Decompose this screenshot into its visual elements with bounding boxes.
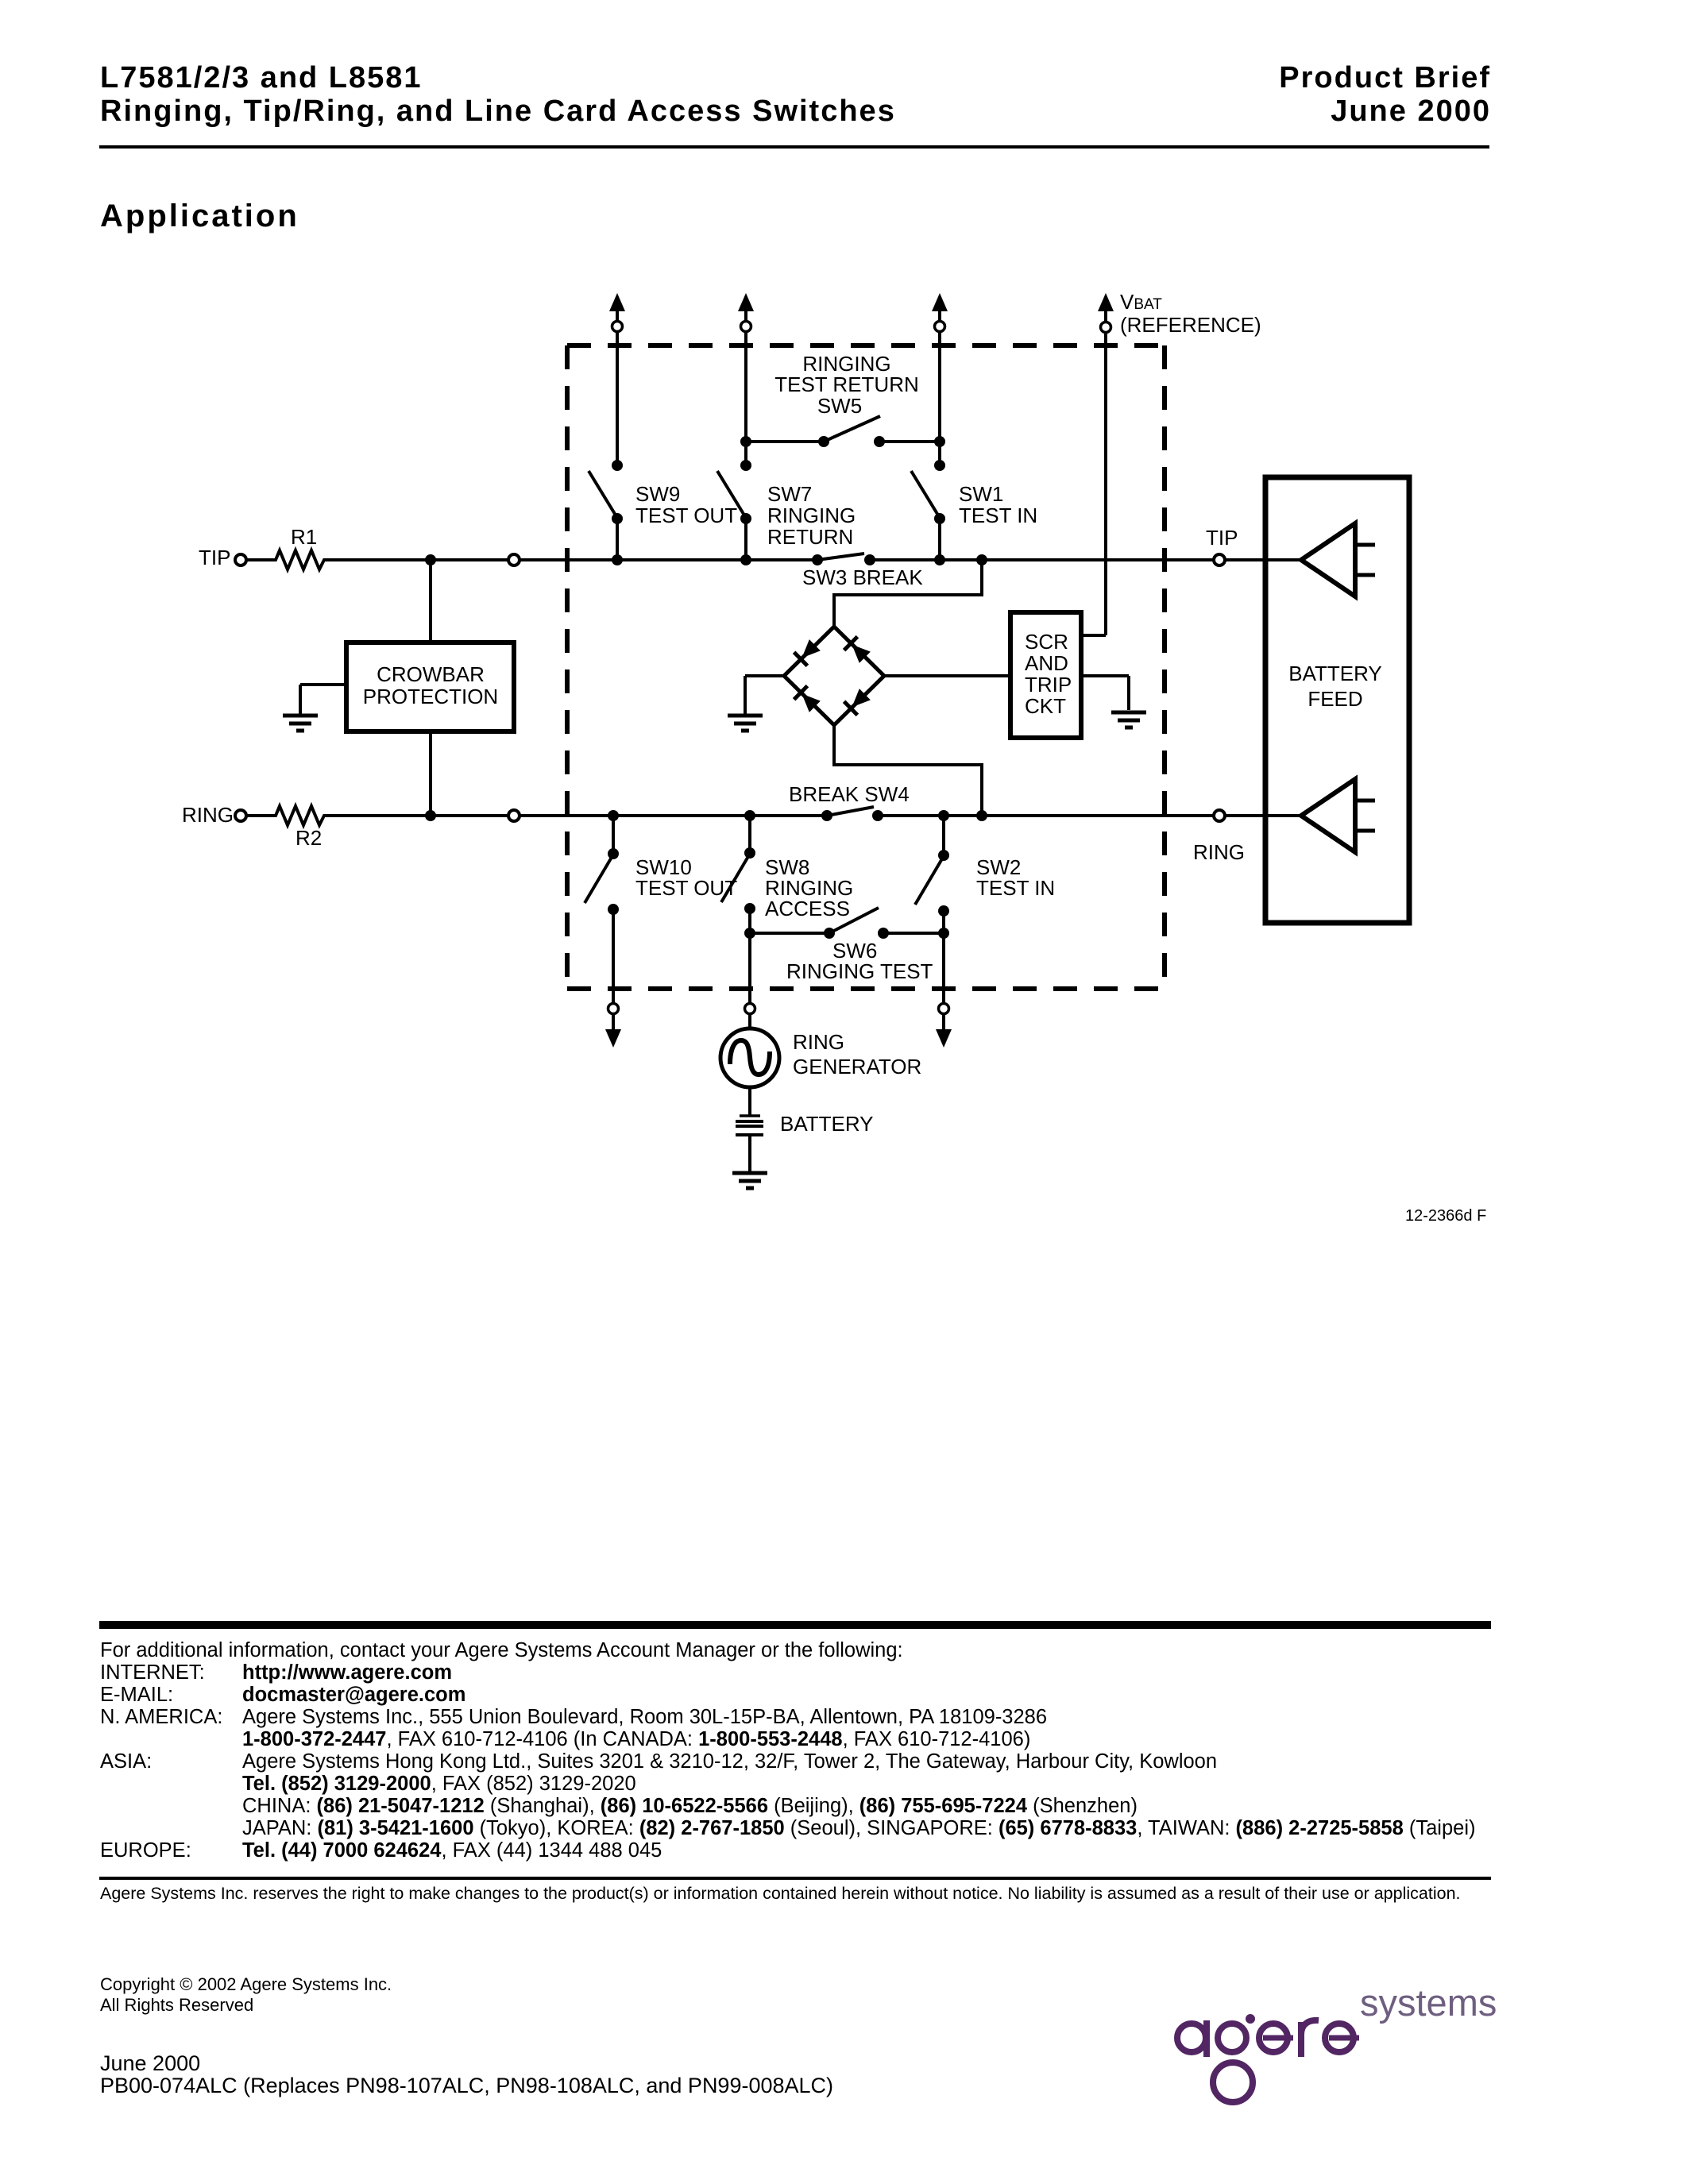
svg-text:RINGING: RINGING — [767, 504, 856, 527]
svg-text:BATTERY: BATTERY — [1288, 662, 1382, 685]
svg-text:AND: AND — [1025, 651, 1068, 675]
svg-text:RING: RING — [1193, 840, 1245, 864]
svg-text:GENERATOR: GENERATOR — [793, 1055, 921, 1078]
svg-text:TEST IN: TEST IN — [959, 504, 1037, 527]
svg-text:PROTECTION: PROTECTION — [363, 685, 498, 708]
svg-text:BREAK SW4: BREAK SW4 — [789, 782, 910, 806]
svg-text:CROWBAR: CROWBAR — [377, 662, 485, 686]
svg-text:R2: R2 — [295, 826, 322, 850]
svg-text:12-2366d F: 12-2366d F — [1405, 1207, 1486, 1225]
svg-text:TIP: TIP — [199, 546, 230, 569]
svg-text:SW1: SW1 — [959, 482, 1003, 506]
svg-text:CKT: CKT — [1025, 694, 1066, 718]
svg-text:TEST IN: TEST IN — [976, 876, 1055, 900]
svg-text:SW9: SW9 — [635, 482, 680, 506]
svg-text:TEST OUT: TEST OUT — [635, 504, 737, 527]
svg-text:R1: R1 — [291, 525, 317, 549]
svg-text:TIP: TIP — [1206, 526, 1238, 550]
svg-text:TRIP: TRIP — [1025, 673, 1072, 696]
svg-text:TEST RETURN: TEST RETURN — [774, 372, 919, 396]
svg-text:systems: systems — [1360, 1981, 1497, 2024]
svg-text:BATTERY: BATTERY — [780, 1112, 874, 1136]
svg-text:SW3 BREAK: SW3 BREAK — [802, 565, 923, 589]
svg-text:RING: RING — [182, 803, 234, 827]
svg-text:(REFERENCE): (REFERENCE) — [1120, 313, 1261, 337]
svg-text:FEED: FEED — [1308, 687, 1362, 711]
svg-text:SCR: SCR — [1025, 630, 1068, 654]
svg-text:RINGING TEST: RINGING TEST — [786, 959, 933, 983]
svg-text:RING: RING — [793, 1030, 844, 1054]
svg-text:ACCESS: ACCESS — [765, 897, 850, 920]
svg-text:RETURN: RETURN — [767, 525, 853, 549]
svg-text:SW7: SW7 — [767, 482, 812, 506]
svg-text:SW5: SW5 — [817, 394, 862, 418]
svg-text:TEST OUT: TEST OUT — [635, 876, 737, 900]
svg-text:VBAT: VBAT — [1120, 290, 1162, 314]
